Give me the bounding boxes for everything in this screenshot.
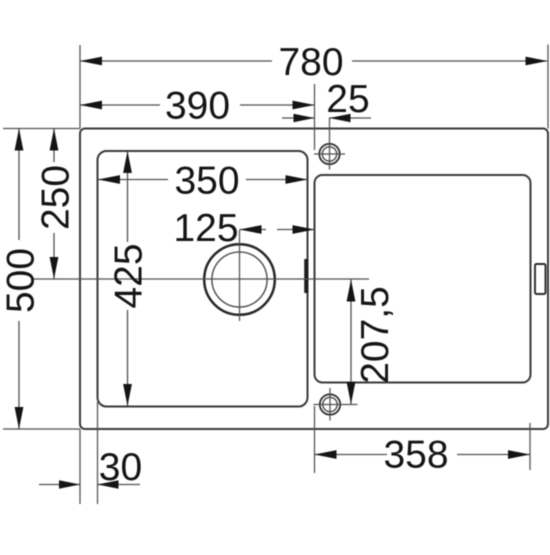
dim 390 — [80, 104, 315, 106]
extension 30 left — [79, 429, 81, 504]
extension top edge left — [3, 128, 80, 130]
dim 207,5 — [350, 280, 352, 405]
crosshair tap top horizontal — [314, 153, 345, 155]
extension 30 right — [97, 402, 99, 504]
crosshair tap top vertical — [329, 118, 331, 170]
drainer area — [315, 175, 531, 383]
extension drainer-left up — [314, 84, 316, 150]
overflow mark bowl edge — [304, 259, 308, 293]
dim 780 — [80, 60, 547, 62]
svg-text:207,5: 207,5 — [354, 286, 397, 384]
tap hole bottom — [320, 394, 340, 414]
extension 358 left — [314, 406, 316, 473]
crosshair tap bottom horizontal — [314, 404, 358, 406]
dim 350 — [98, 179, 308, 181]
dim 30 — [39, 484, 140, 486]
dim 358 — [315, 454, 531, 456]
dim 250 — [53, 129, 55, 280]
overflow slot right rim — [535, 264, 546, 294]
bowl — [98, 151, 308, 407]
svg-text:500: 500 — [0, 248, 43, 313]
crosshair tap bottom vertical — [329, 388, 331, 421]
tap hole top — [319, 144, 339, 164]
svg-text:358: 358 — [383, 434, 448, 477]
dim 25 — [282, 117, 371, 119]
dim 425 — [127, 151, 129, 406]
svg-text:350: 350 — [174, 160, 239, 203]
centerline horizontal drain — [33, 278, 369, 280]
extension bottom edge left — [3, 428, 80, 430]
centerline vertical drain — [239, 230, 241, 321]
dim 500 — [18, 129, 20, 430]
svg-text:30: 30 — [99, 446, 142, 489]
svg-text:125: 125 — [173, 207, 238, 250]
svg-text:390: 390 — [165, 85, 230, 128]
drain circle — [204, 244, 275, 315]
svg-text:25: 25 — [326, 78, 369, 121]
svg-text:425: 425 — [108, 243, 151, 308]
extension 358 right — [529, 423, 531, 470]
svg-text:250: 250 — [35, 165, 78, 230]
sink outer rim — [80, 129, 548, 430]
extension right edge up — [547, 45, 549, 129]
extension left edge up — [79, 45, 81, 129]
dim 125 — [240, 229, 315, 231]
